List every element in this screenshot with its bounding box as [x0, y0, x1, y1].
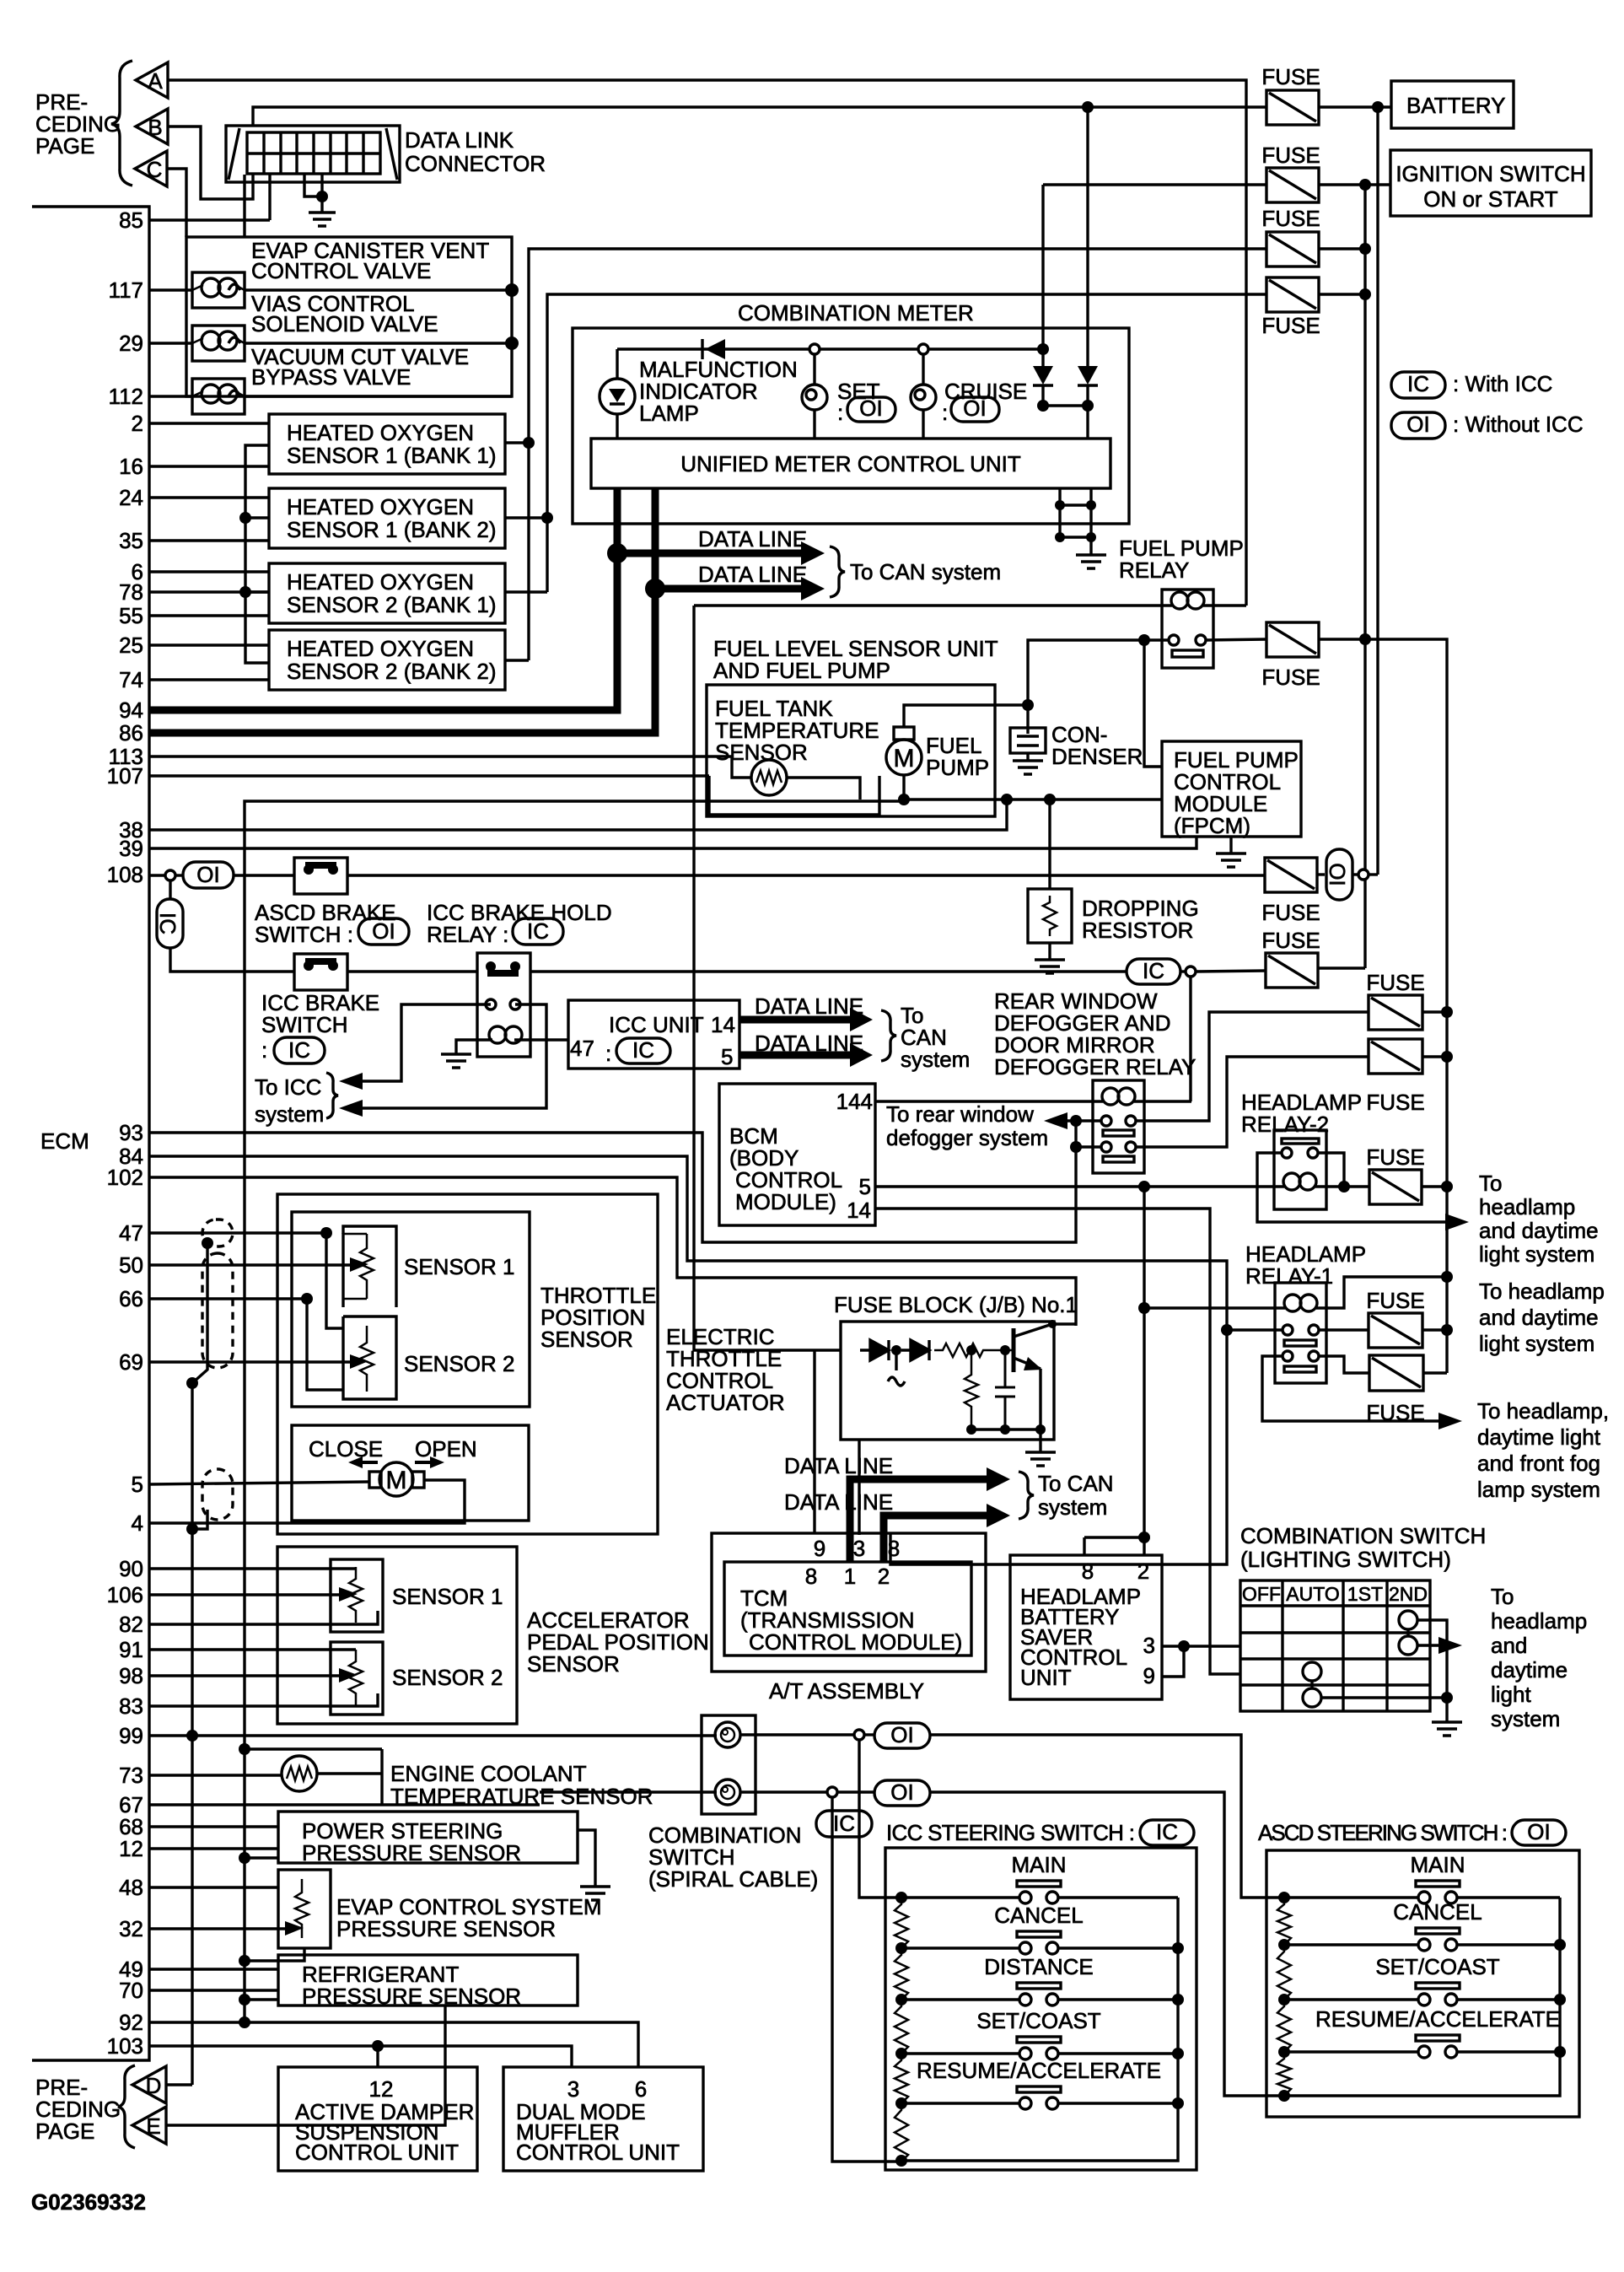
- svg-text:CONNECTOR: CONNECTOR: [405, 151, 546, 176]
- svg-text:74: 74: [119, 667, 143, 692]
- svg-text:108: 108: [107, 862, 143, 887]
- node cruise lamp top: [918, 344, 928, 354]
- svg-text:2: 2: [878, 1564, 890, 1589]
- diode D2 column: [1086, 107, 1089, 366]
- svg-text:70: 70: [119, 1978, 143, 2003]
- svg-text:To CAN: To CAN: [1038, 1471, 1114, 1496]
- brace CAN: [830, 546, 845, 597]
- svg-text:B: B: [148, 115, 162, 140]
- svg-text:M: M: [894, 745, 915, 773]
- fuse F9: [1369, 1039, 1422, 1074]
- node pin108 split: [165, 870, 175, 880]
- svg-text:92: 92: [119, 2010, 143, 2035]
- svg-text:TEMPERATURE SENSOR: TEMPERATURE SENSOR: [390, 1784, 653, 1809]
- svg-text:FUSE: FUSE: [1366, 1288, 1424, 1313]
- ASCD switch right bus: [1284, 1898, 1560, 2096]
- ICC data line 2: [739, 1052, 852, 1059]
- connector triangle A: [136, 62, 168, 98]
- APP sensor1 sub-box: [331, 1559, 383, 1632]
- svg-text:ICC UNIT: ICC UNIT: [609, 1012, 704, 1037]
- svg-text:OI: OI: [196, 862, 219, 887]
- svg-text:MAIN: MAIN: [1012, 1852, 1067, 1877]
- svg-text:50: 50: [119, 1252, 143, 1278]
- wire pin48: [149, 1886, 278, 1888]
- wire D: [166, 2083, 192, 2086]
- OI pill row1: [864, 1733, 874, 1736]
- relay contact right to ICC system arrow 2: [347, 1004, 546, 1108]
- heated oxygen sensor box 2: [269, 488, 505, 548]
- wire defogger row2 right to fuse9: [1136, 1057, 1369, 1147]
- svg-text:(LIGHTING SWITCH): (LIGHTING SWITCH): [1240, 1547, 1451, 1572]
- shield capsule 50-69: [202, 1253, 233, 1368]
- capacitor JB: [995, 1350, 1015, 1429]
- OI pill row2: [837, 1790, 874, 1793]
- wire pin row 678: [149, 570, 269, 573]
- spiral symbol 2: [715, 1779, 740, 1805]
- wire pin91: [149, 1648, 356, 1650]
- svg-text:C: C: [147, 157, 163, 182]
- wire pin row 553: [149, 465, 269, 467]
- svg-text:FUSE: FUSE: [1366, 970, 1424, 995]
- svg-text:112: 112: [109, 384, 143, 409]
- svg-text:55: 55: [119, 603, 143, 628]
- fuse F12: [1369, 1355, 1423, 1391]
- svg-text:MODULE): MODULE): [735, 1189, 836, 1214]
- diode JB1: [860, 1340, 889, 1360]
- svg-text:system: system: [901, 1047, 970, 1072]
- wire pin12: [149, 1847, 278, 1849]
- relay coil left to ground: [456, 1040, 492, 1054]
- svg-text:HEATED OXYGEN: HEATED OXYGEN: [287, 569, 474, 595]
- wire HO2S3 right: [505, 590, 547, 593]
- svg-text:lamp system: lamp system: [1477, 1477, 1600, 1502]
- svg-text:SENSOR 2: SENSOR 2: [392, 1665, 503, 1690]
- svg-text:82: 82: [119, 1612, 143, 1637]
- svg-text:AUTO: AUTO: [1286, 1583, 1339, 1605]
- 2ND contacts: [1399, 1611, 1417, 1629]
- svg-text:RELAY :: RELAY :: [427, 922, 508, 947]
- dropping resistor: [1048, 800, 1051, 889]
- svg-text:system: system: [1038, 1494, 1107, 1520]
- IC pill below row2: [832, 1797, 901, 2162]
- svg-text:66: 66: [119, 1286, 143, 1311]
- svg-text:14: 14: [847, 1198, 871, 1223]
- wire pin39 to FPCM: [149, 837, 1196, 848]
- svg-text:PAGE: PAGE: [35, 133, 94, 159]
- svg-text:G02369332: G02369332: [31, 2189, 146, 2215]
- svg-text:CONTROL UNIT: CONTROL UNIT: [295, 2140, 459, 2165]
- legend IC pill: [1391, 372, 1445, 398]
- wire pin row 344: [149, 288, 192, 291]
- svg-text:4: 4: [132, 1510, 143, 1536]
- svg-text:light system: light system: [1479, 1331, 1594, 1356]
- svg-text:To: To: [1479, 1171, 1502, 1196]
- ICC brake switch: [294, 954, 347, 990]
- svg-text:To rear window: To rear window: [886, 1101, 1034, 1127]
- HO2S signal bus: [245, 445, 269, 663]
- ASCD brake switch: [294, 858, 347, 894]
- svg-text:94: 94: [119, 697, 143, 723]
- wire pin103: [149, 2046, 572, 2067]
- junction valve box row29: [505, 336, 519, 350]
- wire pin50 arrow into sensor1: [149, 1263, 354, 1266]
- wire row2 spiral: [540, 1790, 717, 1793]
- node spiral row1: [854, 1730, 864, 1740]
- svg-text:ENGINE COOLANT: ENGINE COOLANT: [390, 1761, 587, 1786]
- junction HO2S bus2: [541, 512, 553, 524]
- wire TCM9 to JB input: [813, 1350, 815, 1533]
- TCM data line 2: [884, 1516, 988, 1562]
- wire HBS pin9: [1162, 1646, 1184, 1677]
- svg-text:CANCEL: CANCEL: [994, 1903, 1083, 1928]
- svg-text:RELAY-2: RELAY-2: [1241, 1112, 1329, 1137]
- wire pin85 to DLC: [149, 218, 270, 221]
- wire fuel pump -: [904, 775, 1162, 800]
- svg-text:OI: OI: [372, 918, 395, 944]
- svg-text:light system: light system: [1479, 1241, 1594, 1267]
- svg-text::: :: [837, 400, 843, 425]
- fuel pump motor: [894, 727, 914, 740]
- svg-text:OI: OI: [890, 1722, 913, 1747]
- heated oxygen sensor box 1: [269, 414, 505, 474]
- svg-text:DATA LINE: DATA LINE: [784, 1453, 893, 1478]
- wire pin70: [149, 1989, 278, 1991]
- wire pin113: [149, 756, 751, 778]
- junction dropping resistor feed: [1044, 794, 1056, 805]
- svg-text:DATA LINE: DATA LINE: [784, 1489, 893, 1515]
- wire TCM3 to JB: [858, 1440, 860, 1535]
- TPS sensor1 resistor: [360, 1234, 374, 1299]
- wire relay2 contact right tie: [1318, 1153, 1344, 1187]
- node connector 108 circuit: [1358, 869, 1369, 880]
- svg-text:35: 35: [119, 528, 143, 553]
- TCM outer box (A/T assembly): [712, 1533, 986, 1672]
- svg-text:39: 39: [119, 836, 143, 861]
- wire pin32 arrow: [149, 1927, 289, 1930]
- TPS sensor2 resistor: [360, 1326, 374, 1392]
- svg-text:FUSE: FUSE: [1261, 928, 1320, 953]
- APP sensor1 resistor: [349, 1567, 363, 1623]
- ASCD steering switch box: [1266, 1850, 1579, 2117]
- valve label box: [186, 237, 512, 396]
- wire relay2 coil to fuse10: [1326, 1185, 1369, 1187]
- svg-text:DATA LINE: DATA LINE: [755, 1031, 863, 1056]
- TPS sensor1 sub-box: [343, 1226, 396, 1307]
- svg-text:HEATED OXYGEN: HEATED OXYGEN: [287, 420, 474, 445]
- wire fuel pump return to sensor bus: [245, 801, 904, 2022]
- FPCM ground: [1229, 837, 1232, 853]
- brace preceding bottom: [118, 2065, 135, 2148]
- svg-text:SENSOR 1: SENSOR 1: [404, 1254, 515, 1279]
- relay coil right to ICC unit: [514, 1038, 568, 1041]
- DLC pin to pin85 wire: [268, 174, 271, 220]
- svg-text:102: 102: [107, 1165, 143, 1190]
- close arrow: [358, 1461, 378, 1464]
- svg-text:48: 48: [119, 1875, 143, 1900]
- wire pin83: [149, 1693, 378, 1706]
- DLC ground pins: [304, 174, 322, 197]
- IC pill vertical below node: [169, 880, 171, 899]
- fuel pump relay: [1162, 590, 1213, 668]
- svg-text:To headlamp,: To headlamp,: [1477, 1398, 1609, 1424]
- fuse F11: [1369, 1313, 1422, 1348]
- shield capsule 47: [202, 1219, 233, 1246]
- svg-text:To headlamp: To headlamp: [1479, 1279, 1605, 1304]
- wire relay2 contact left out: [1257, 1153, 1449, 1222]
- combination switch grid: [1240, 1580, 1430, 1711]
- junction FPCM sense: [1001, 794, 1013, 805]
- wire row2 to ASCD chain bottom: [930, 1792, 1283, 2096]
- brace TCM CAN: [1019, 1472, 1034, 1519]
- thermistor right lead: [787, 778, 860, 800]
- svg-text:IC: IC: [1407, 371, 1429, 396]
- diode JB2: [901, 1340, 929, 1360]
- junction HO2S bus1: [523, 437, 535, 449]
- arrow to headlamp 1: [1445, 1214, 1469, 1230]
- svg-text:MAIN: MAIN: [1411, 1852, 1465, 1877]
- ground dropping resistor: [1035, 960, 1065, 973]
- svg-text:69: 69: [119, 1349, 143, 1375]
- fuse F5 (fuel pump): [1266, 622, 1319, 657]
- wire BCM 144 to defogger coil: [875, 1100, 1093, 1102]
- wire E: [166, 2005, 445, 2125]
- wire pin row 407: [149, 342, 192, 344]
- accelerator pedal position sensor box: [277, 1547, 517, 1724]
- svg-text:RESISTOR: RESISTOR: [1082, 918, 1193, 943]
- wire relay1 coil right to bus: [1326, 1277, 1447, 1308]
- arrow to ICC system 2: [339, 1100, 363, 1117]
- svg-text:25: 25: [119, 633, 143, 658]
- electric throttle control actuator box: [277, 1194, 658, 1534]
- brace To ICC: [326, 1073, 338, 1118]
- malfunction indicator lamp: [600, 379, 635, 414]
- svg-text:144: 144: [836, 1089, 873, 1114]
- svg-text:FUSE: FUSE: [1261, 64, 1320, 89]
- svg-text:DENSER: DENSER: [1051, 744, 1143, 769]
- brace ICC CAN: [881, 1010, 896, 1061]
- svg-text:SOLENOID VALVE: SOLENOID VALVE: [251, 311, 438, 336]
- svg-text:OPEN: OPEN: [415, 1436, 477, 1462]
- svg-text:CLOSE: CLOSE: [309, 1436, 383, 1462]
- DLC top pin wire to fuse column: [253, 107, 1246, 126]
- svg-text:RESUME/ACCELERATE: RESUME/ACCELERATE: [1315, 2006, 1560, 2032]
- svg-text:daytime light: daytime light: [1477, 1424, 1601, 1450]
- connector triangle D: [132, 2066, 166, 2103]
- headlamp battery saver control unit: [1010, 1555, 1162, 1699]
- svg-text:32: 32: [119, 1916, 143, 1941]
- wire pin99 row: [149, 1734, 717, 1736]
- svg-text:103: 103: [107, 2033, 143, 2059]
- wire BCM 5: [875, 1185, 1274, 1187]
- thermistor symbol: [751, 760, 787, 795]
- fuse F4: [1266, 277, 1319, 312]
- transistor JB: [1012, 1328, 1016, 1372]
- svg-text:and daytime: and daytime: [1479, 1305, 1599, 1330]
- EVAP control system pressure sensor box: [278, 1870, 331, 1948]
- svg-text:117: 117: [109, 277, 143, 303]
- svg-text:DATA LINE: DATA LINE: [698, 562, 807, 587]
- svg-text:IC: IC: [1156, 1819, 1178, 1844]
- wire DLC pin stub: [243, 175, 245, 237]
- diode D1 column: [1041, 185, 1044, 366]
- svg-text:SENSOR 2: SENSOR 2: [404, 1351, 515, 1376]
- svg-text:ASCD STEERING SWITCH :: ASCD STEERING SWITCH :: [1258, 1820, 1508, 1845]
- svg-text:OI: OI: [890, 1779, 913, 1805]
- node set lamp top: [809, 344, 820, 354]
- wire BCM 14: [875, 1209, 1240, 1674]
- diode on meter wire: [705, 339, 725, 359]
- wire relay1 row2 left to arrow: [1262, 1356, 1442, 1421]
- engine coolant temperature sensor: [282, 1756, 317, 1791]
- OI pill vertical: [1317, 873, 1325, 875]
- svg-text:and: and: [1491, 1633, 1527, 1658]
- node row1152: [1186, 966, 1196, 977]
- ICC data line 1: [739, 1016, 852, 1024]
- resistor JB vertical: [965, 1350, 978, 1429]
- svg-text:To: To: [1491, 1584, 1514, 1609]
- svg-text:99: 99: [119, 1723, 143, 1748]
- svg-text:OI: OI: [1527, 1819, 1550, 1844]
- arrow to ICC system 1: [339, 1073, 363, 1090]
- APP sensor2 resistor: [349, 1650, 363, 1705]
- junction condenser top: [1022, 699, 1034, 711]
- wire pin row 730: [149, 614, 269, 616]
- svg-text:CANCEL: CANCEL: [1393, 1899, 1481, 1925]
- wire pin106 arrow: [149, 1593, 343, 1596]
- ECM connector box: [32, 207, 149, 2060]
- svg-text:2: 2: [1137, 1559, 1149, 1584]
- svg-text:IC: IC: [833, 1811, 855, 1836]
- svg-text:OI: OI: [1325, 863, 1350, 886]
- ICC unit box: [568, 1000, 739, 1069]
- svg-text:HEATED OXYGEN: HEATED OXYGEN: [287, 494, 474, 520]
- svg-text:SWITCH: SWITCH: [261, 1012, 348, 1037]
- svg-text:COMBINATION METER: COMBINATION METER: [738, 300, 974, 326]
- wire ICC main feed: [859, 1740, 901, 1898]
- heated oxygen sensor box 3: [269, 563, 505, 623]
- svg-text:PAGE: PAGE: [35, 2119, 94, 2144]
- svg-text:(FPCM): (FPCM): [1174, 813, 1250, 838]
- wire defogger coil feed: [1189, 977, 1191, 1101]
- wire pin47: [149, 1231, 326, 1234]
- svg-text:OI: OI: [963, 396, 986, 421]
- wire refr third: [239, 1994, 250, 2005]
- svg-text:85: 85: [119, 207, 143, 233]
- svg-text:UNIT: UNIT: [1020, 1665, 1072, 1690]
- IC pill row1152: [1127, 959, 1180, 984]
- svg-text:FUSE: FUSE: [1366, 1090, 1424, 1115]
- wire pin92: [149, 2022, 638, 2067]
- dual mode muffler control unit: [503, 2067, 703, 2171]
- svg-text:IGNITION SWITCH: IGNITION SWITCH: [1395, 161, 1585, 186]
- svg-text:SET/COAST: SET/COAST: [976, 2008, 1100, 2033]
- ICC switch resistor chain: [895, 1898, 908, 1948]
- svg-text:SENSOR 1 (BANK 2): SENSOR 1 (BANK 2): [287, 517, 497, 542]
- svg-text:IC: IC: [527, 918, 549, 944]
- svg-text:3: 3: [853, 1536, 865, 1561]
- wire A to fuse column: [168, 80, 1246, 606]
- wire EVAP third: [239, 1955, 250, 1967]
- wire HO2S2 right: [505, 516, 547, 519]
- headlamp relay-2: [1274, 1130, 1326, 1209]
- wire pin66: [149, 1297, 307, 1300]
- wire pin98 arrow: [149, 1674, 343, 1677]
- junction battery feed: [1372, 101, 1384, 113]
- svg-text:DATA LINE: DATA LINE: [698, 526, 807, 552]
- svg-text:LAMP: LAMP: [639, 401, 699, 426]
- meter top wire: [617, 347, 1043, 350]
- svg-text:IC: IC: [1143, 958, 1164, 983]
- wire pin84 to TCM pin8: [149, 1156, 1227, 1564]
- ground JB: [1025, 1452, 1056, 1466]
- svg-text:CONTROL UNIT: CONTROL UNIT: [516, 2140, 680, 2165]
- wire relay contact left: [1028, 640, 1169, 705]
- svg-text:3: 3: [567, 2076, 579, 2102]
- svg-text:A: A: [148, 68, 163, 94]
- svg-text:: Without ICC: : Without ICC: [1453, 412, 1584, 437]
- ICC steering switch box: [885, 1848, 1196, 2170]
- svg-text:SENSOR: SENSOR: [527, 1651, 620, 1677]
- wire HBS pin3: [1162, 1645, 1240, 1647]
- svg-text:29: 29: [119, 331, 143, 356]
- svg-text:93: 93: [119, 1120, 143, 1145]
- svg-text:To CAN system: To CAN system: [850, 559, 1001, 584]
- svg-text:ACTUATOR: ACTUATOR: [666, 1390, 785, 1415]
- svg-text:CONTROL MODULE): CONTROL MODULE): [749, 1629, 962, 1655]
- wire fuse1 to battery: [1246, 105, 1266, 108]
- svg-text:SENSOR 1 (BANK 1): SENSOR 1 (BANK 1): [287, 443, 497, 468]
- svg-text:SET/COAST: SET/COAST: [1375, 1954, 1499, 1979]
- throttle position sensor box: [292, 1212, 530, 1407]
- wire pin row 470: [149, 395, 192, 397]
- wire relay row through: [530, 970, 1127, 972]
- fuse F7: [1266, 953, 1318, 988]
- connector triangle B: [136, 109, 168, 144]
- svg-text:system: system: [255, 1101, 324, 1127]
- CRUISE indicator lamp: [922, 354, 924, 385]
- svg-text:defogger system: defogger system: [886, 1125, 1048, 1150]
- wire C to valve label box: [167, 169, 186, 237]
- svg-text:(SPIRAL CABLE): (SPIRAL CABLE): [648, 1866, 818, 1892]
- wire pin row 590: [149, 496, 269, 498]
- svg-text:SENSOR 2 (BANK 2): SENSOR 2 (BANK 2): [287, 659, 497, 684]
- svg-text:headlamp: headlamp: [1479, 1194, 1575, 1219]
- svg-text:IC: IC: [155, 913, 180, 934]
- svg-text:BATTERY: BATTERY: [1406, 93, 1506, 118]
- wire defogger row1 right to fuse8: [1136, 1012, 1369, 1121]
- svg-text:BYPASS VALVE: BYPASS VALVE: [251, 364, 411, 390]
- svg-text:FUSE: FUSE: [1366, 1144, 1424, 1170]
- svg-text:light: light: [1491, 1682, 1531, 1707]
- svg-text:RELAY-1: RELAY-1: [1245, 1263, 1333, 1289]
- wire battery bus down: [1376, 107, 1379, 875]
- svg-text:daytime: daytime: [1491, 1657, 1568, 1682]
- relay contact left to ICC system arrow 1: [347, 1004, 491, 1081]
- SET indicator lamp: [813, 354, 815, 385]
- wire fuel pump +: [904, 705, 1028, 727]
- wire meter feed to fuse2: [1043, 183, 1266, 186]
- svg-text:headlamp: headlamp: [1491, 1608, 1587, 1634]
- svg-text:FUSE: FUSE: [1261, 313, 1320, 338]
- svg-text:system: system: [1491, 1706, 1560, 1731]
- svg-text:CONTROL VALVE: CONTROL VALVE: [251, 258, 431, 283]
- svg-text:SWITCH :: SWITCH :: [255, 922, 353, 947]
- BCM box: [719, 1084, 875, 1225]
- wire pin row 502: [149, 422, 269, 424]
- wire pin73: [149, 1774, 282, 1776]
- heated oxygen sensor box 4: [269, 630, 505, 690]
- wire pin row 765: [149, 643, 269, 646]
